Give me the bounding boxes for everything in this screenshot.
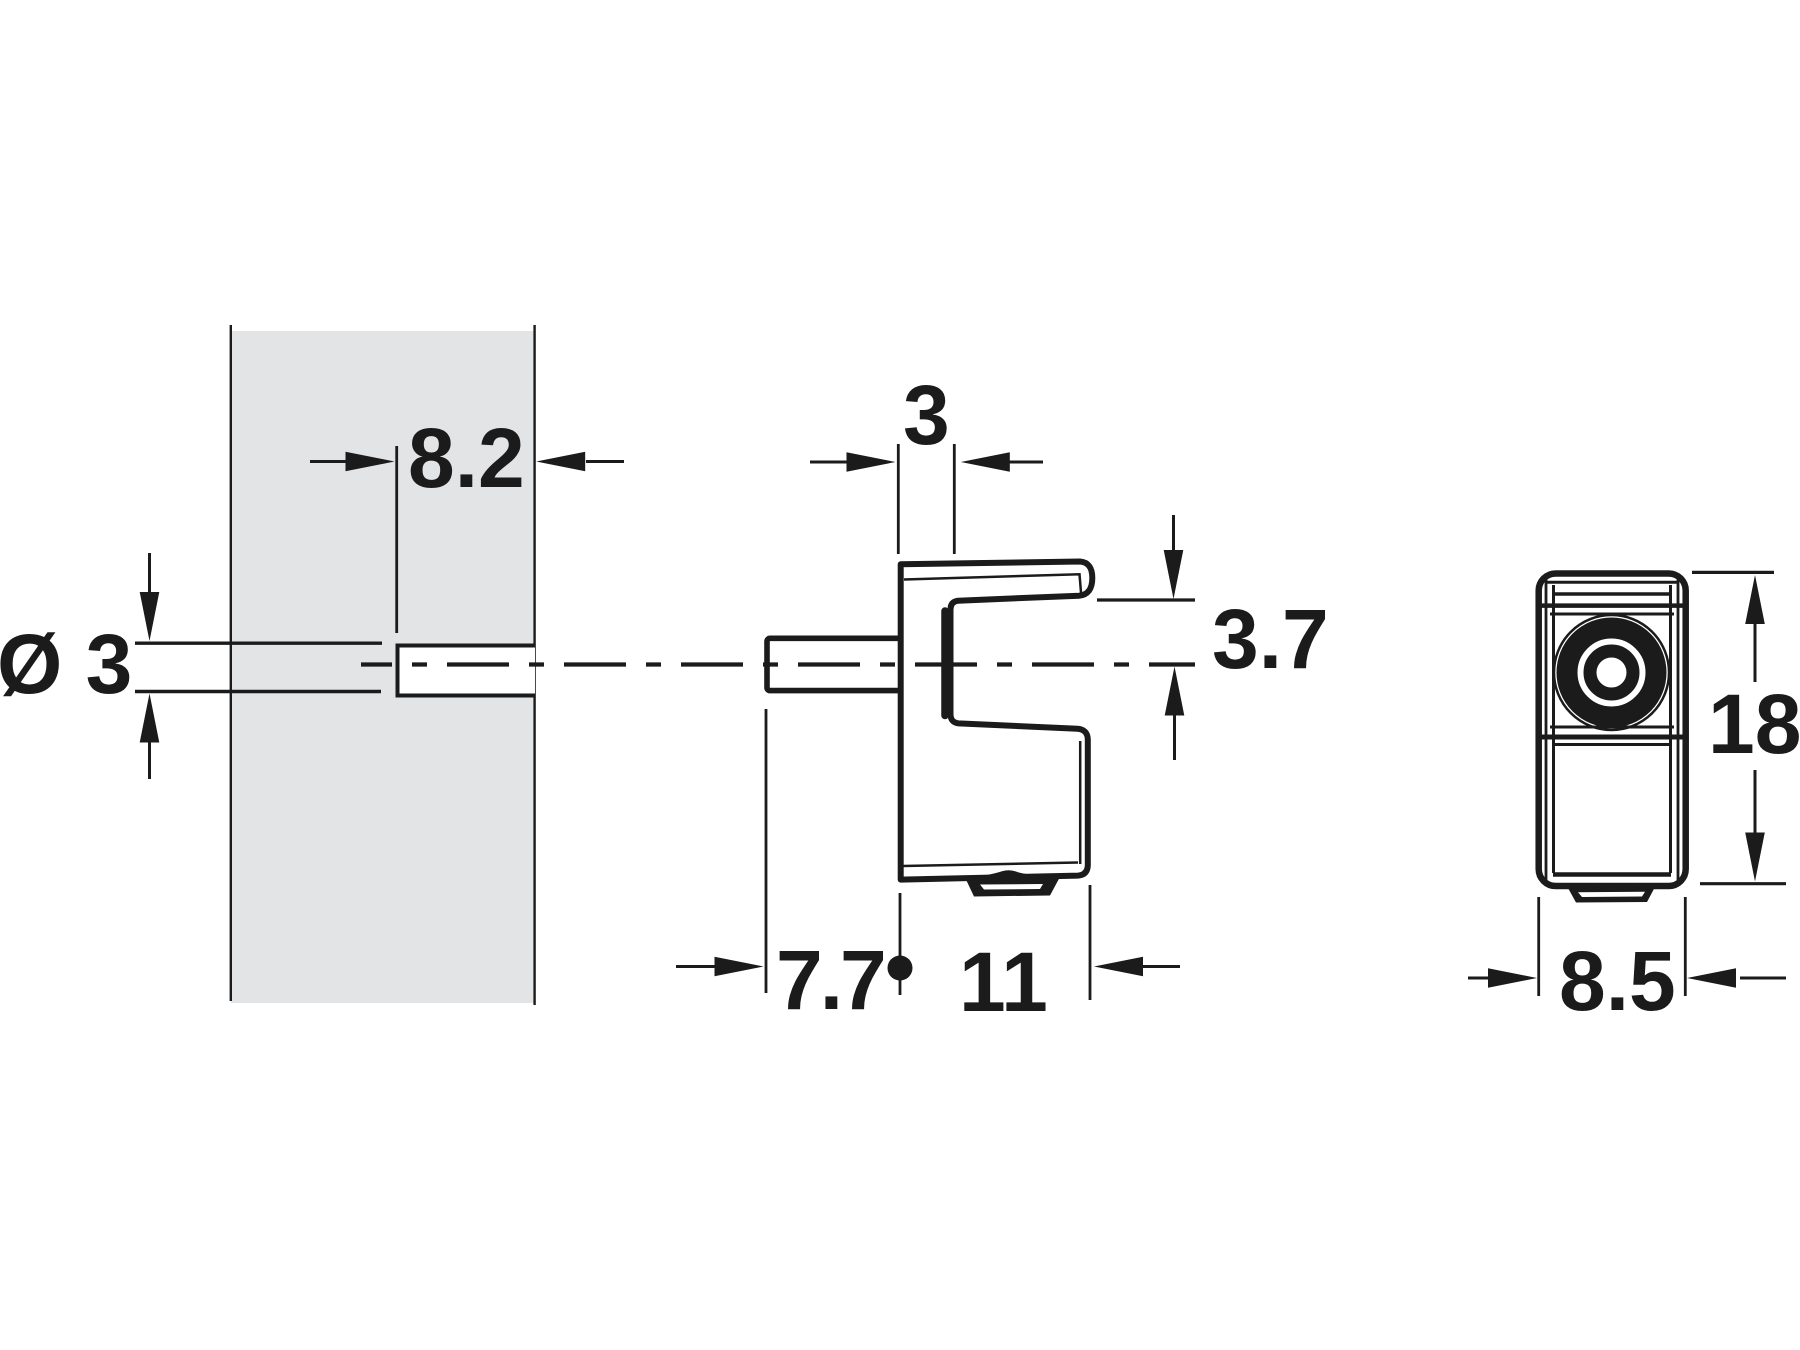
magnet thick ring (1567, 628, 1656, 717)
18 down arrow (1745, 770, 1765, 882)
3 left arrow (810, 452, 896, 472)
front view inner square sides (1552, 585, 1555, 873)
dia-3 extension line bottom (135, 690, 381, 693)
7.7 extension line (765, 709, 768, 993)
svg-text:7.7: 7.7 (776, 933, 884, 1027)
18 up arrow (1745, 575, 1765, 682)
front view top thin line (1545, 581, 1679, 584)
front view foot (1568, 887, 1655, 903)
bracket inner wall double stroke (941, 611, 949, 716)
front view foot white sliver (1578, 892, 1645, 897)
bracket body outline (side view) (901, 562, 1093, 880)
8.2 left arrow (310, 452, 395, 472)
8.5 right arrow (1687, 968, 1786, 988)
front view lower square bottom line (1553, 872, 1671, 877)
magnet inner ring (1590, 651, 1633, 694)
3 right arrow (961, 452, 1043, 472)
svg-text:8.5: 8.5 (1559, 934, 1676, 1028)
svg-text:18: 18 (1708, 677, 1800, 771)
18 top extension line (1692, 571, 1774, 574)
svg-text:3: 3 (903, 368, 950, 462)
3.7 top extension line (1097, 598, 1195, 601)
svg-text:Ø 3: Ø 3 (0, 617, 132, 711)
bracket right edge inner thin line (1079, 741, 1082, 864)
8.2 right arrow (536, 452, 624, 472)
center line (dash-dot axis) (361, 662, 1195, 666)
svg-text:3.7: 3.7 (1212, 592, 1329, 686)
8.5 left extension line (1537, 897, 1540, 996)
3 dimension right extension line (953, 444, 956, 554)
3.7 up arrow (1165, 667, 1185, 761)
8.2 dimension line (395, 446, 398, 633)
11 left-pointing arrow (1094, 957, 1180, 977)
magnet outer thin circle (1554, 615, 1669, 730)
front view circle section bottom thin line (1550, 726, 1674, 729)
bracket bottom inner thin line (903, 863, 1078, 867)
svg-text:11: 11 (959, 935, 1048, 1029)
7.7 right-pointing arrow (676, 957, 764, 977)
3.7 down arrow (1164, 515, 1184, 599)
foot white sliver (980, 884, 1043, 890)
18 bottom extension line (1700, 882, 1786, 885)
front view upper band thick line (1541, 603, 1685, 608)
front view circle section top thin line (1550, 613, 1674, 616)
drill hole in panel (396, 644, 536, 698)
svg-text:8.2: 8.2 (408, 411, 525, 505)
middle extension line with dot (888, 893, 913, 995)
front view lower band thick line (1541, 735, 1683, 740)
8.5 left arrow (1468, 968, 1537, 988)
front view left inner thin line (1545, 578, 1548, 884)
panel (gray cross-section board) (231, 325, 535, 1005)
dia-3 extension line top (135, 642, 382, 645)
8.5 right extension line (1684, 897, 1687, 996)
dia-3 down arrow (140, 553, 160, 641)
pin of shelf support (767, 638, 903, 690)
front view right inner thin line (1677, 578, 1680, 884)
dia-3 up arrow (140, 694, 160, 780)
bracket thin edge line under top edge with cap seam (904, 574, 1081, 592)
front view outer body (1539, 574, 1686, 887)
front view lower square top thin line (1553, 743, 1671, 746)
3 dimension left extension line (897, 444, 900, 554)
front view upper band thin line (1552, 592, 1672, 596)
11 right extension line (1089, 885, 1092, 1000)
bracket bottom foot with spring wave (965, 870, 1061, 896)
